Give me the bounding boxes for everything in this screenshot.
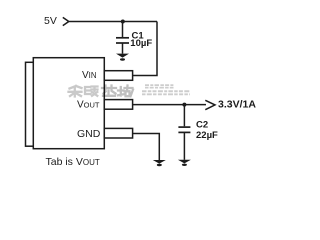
pin GND	[104, 128, 132, 138]
svg-text:VIN: VIN	[82, 70, 96, 81]
pin VIN	[104, 71, 132, 81]
svg-text:3.3V/1A: 3.3V/1A	[218, 99, 256, 111]
svg-text:10µF: 10µF	[130, 38, 152, 49]
svg-text:Tab is VOUT: Tab is VOUT	[46, 156, 100, 168]
junction output node	[182, 103, 186, 107]
ground (C2)	[178, 160, 191, 166]
ground (GND pin)	[153, 160, 166, 166]
capacitor C1	[116, 22, 129, 54]
svg-text:5V: 5V	[44, 15, 57, 27]
ground (C1)	[116, 54, 129, 61]
junction input node	[121, 20, 125, 24]
watermark small text line 2	[142, 91, 190, 94]
regulator body U1	[33, 58, 104, 149]
arrow output port	[205, 100, 215, 109]
svg-text:VOUT: VOUT	[77, 100, 100, 111]
watermark small text line 1	[145, 85, 174, 88]
svg-text:22µF: 22µF	[196, 130, 218, 141]
wire 5V top rail	[69, 21, 157, 23]
regulator tab	[26, 62, 39, 146]
pin VOUT	[104, 100, 132, 110]
wire input drop to VIN	[133, 22, 157, 76]
wire VOUT output	[133, 104, 206, 106]
watermark logo 华强芯城	[69, 86, 134, 97]
svg-text:GND: GND	[77, 128, 101, 140]
capacitor C2	[178, 105, 190, 160]
port 5V chevron	[63, 17, 69, 25]
wire GND to ground	[133, 134, 160, 161]
